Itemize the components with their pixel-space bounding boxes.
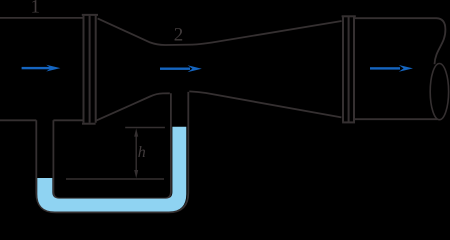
pipe break S-curve (right end) [435,30,446,65]
converging cone bottom line [96,93,170,120]
flow arrow 1 (inlet) [22,65,61,72]
wire: right pipe bottom line [355,118,437,120]
wire: left pipe top line [0,17,83,19]
manometer liquid (light blue) [37,127,186,212]
flow arrow 2 (throat) [160,65,202,72]
flange F2 bottom cap [342,121,355,123]
flange F2 (venturi exit) vertical plates [343,17,354,122]
manometer glass inner wall [53,93,170,198]
converging cone top line [98,18,342,45]
pipe break ellipse [430,64,448,120]
manometer glass outer wall [36,92,188,212]
svg-text:1: 1 [31,0,41,18]
svg-text:h: h [138,144,146,161]
flange F1 (venturi entrance) vertical plates [84,16,96,123]
flange F2 top cap [342,15,356,17]
dimension arrow h (vertical double-headed) [134,128,138,178]
dimension reference line (upper, liquid level limb 2) [125,127,165,129]
wire: right pipe top line with rounded corner [355,18,445,29]
wire: left pipe bottom line (with manometer opening) [0,119,83,121]
flange F1 bottom cap [82,123,96,125]
throat bottom right ledge and diverging cone bottom line [189,91,341,117]
flow arrow 3 (outlet) [370,65,413,72]
dimension reference line (lower, liquid level limb 1) [66,178,164,180]
svg-text:2: 2 [174,25,184,46]
flange F1 top cap [82,14,98,16]
